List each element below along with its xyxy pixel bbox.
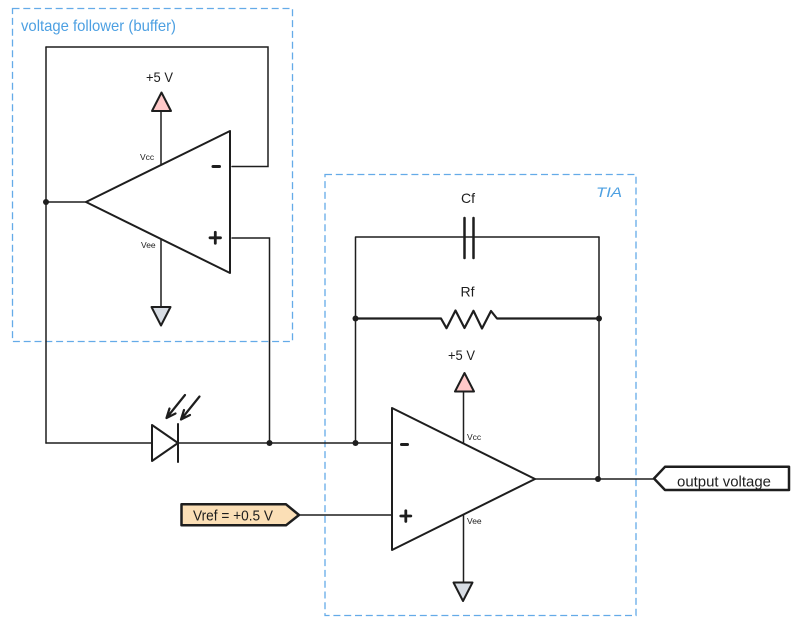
- svg-text:Vref = +0.5 V: Vref = +0.5 V: [193, 509, 273, 525]
- output voltage tag: [654, 467, 789, 490]
- svg-text:output voltage: output voltage: [677, 474, 771, 491]
- Cf value label: [461, 190, 475, 206]
- wire: feedback network left rail: [355, 237, 357, 443]
- svg-text:Vcc: Vcc: [467, 432, 482, 442]
- wire: Cf branch: [356, 236, 599, 238]
- svg-text:Vee: Vee: [141, 240, 156, 250]
- Vref tag (orange pennant): [182, 504, 300, 525]
- TIA enclosure dashed box: [325, 175, 636, 616]
- junction dot Rf right: [596, 316, 602, 322]
- svg-text:Rf: Rf: [461, 284, 475, 300]
- wire: U1 non-inverting input to cathode node: [232, 238, 270, 443]
- wire: U1 feedback top (output to inverting input): [46, 47, 268, 167]
- U2 non-inverting input label +: [401, 511, 411, 522]
- supply +5V triangle (buffer): [152, 93, 171, 112]
- supply +5V triangle (TIA): [455, 373, 474, 392]
- junction dot at buffer + / cathode node: [267, 440, 273, 446]
- Rf value label: [461, 284, 475, 300]
- U2 Vee pin label: [467, 516, 482, 526]
- wire: U1 Vee to negative supply: [160, 239, 162, 307]
- junction dot output node: [595, 476, 601, 482]
- wire: U2 output to output tag: [535, 478, 653, 480]
- wire: U1 output to node A: [46, 201, 88, 203]
- svg-text:Vcc: Vcc: [140, 152, 155, 162]
- U1 inverting input label -: [213, 165, 220, 168]
- svg-text:Cf: Cf: [461, 190, 475, 206]
- U1 Vee pin label: [141, 240, 156, 250]
- svg-text:Vee: Vee: [467, 516, 482, 526]
- wire: Vref to U2 non-inverting input: [300, 514, 392, 516]
- photodiode light arrow 2: [181, 397, 200, 420]
- U2 Vcc pin label: [467, 432, 482, 442]
- +5 V label (buffer): [146, 70, 173, 85]
- photodiode D1: [152, 424, 178, 462]
- +5 V label (TIA): [448, 348, 475, 363]
- TIA box title: [596, 184, 622, 200]
- svg-text:voltage follower (buffer): voltage follower (buffer): [21, 18, 176, 35]
- Vee supply triangle (buffer, gray down): [152, 307, 171, 326]
- junction dot at feedback left rail / cathode node: [353, 440, 359, 446]
- wire: left rail from feedback top down to photodiode anode row: [45, 47, 47, 443]
- U2 inverting input label -: [402, 443, 408, 446]
- U1 non-inverting input label +: [210, 232, 221, 243]
- buffer box title: voltage follower (buffer): [21, 18, 176, 35]
- wire: node A to photodiode anode: [46, 442, 152, 444]
- wire: +5V supply to U1 Vcc: [160, 111, 162, 165]
- capacitor Cf plates: [465, 218, 474, 258]
- svg-text:TIA: TIA: [596, 184, 622, 200]
- wire: U2 Vee to negative supply: [463, 515, 465, 582]
- wire: cathode node to U2 inverting input: [178, 442, 391, 444]
- node A junction dot: [43, 199, 49, 205]
- Vee supply triangle (TIA, gray down): [454, 583, 473, 602]
- wire: feedback network right rail: [598, 237, 600, 479]
- wire: +5V supply to U2 Vcc: [463, 392, 465, 443]
- output voltage tag text: [677, 474, 771, 491]
- op-amp U1 (buffer, points left): [86, 131, 230, 273]
- U1 Vcc pin label: [140, 152, 155, 162]
- junction dot Rf left: [353, 316, 359, 322]
- buffer enclosure dashed box: [13, 9, 293, 342]
- svg-text:+5 V: +5 V: [146, 70, 173, 85]
- resistor Rf zigzag on wire: [356, 311, 599, 329]
- op-amp U2 (TIA, points right): [392, 408, 535, 550]
- Vref tag text: [193, 509, 273, 525]
- svg-text:+5 V: +5 V: [448, 348, 475, 363]
- photodiode light arrow 1: [167, 395, 186, 418]
